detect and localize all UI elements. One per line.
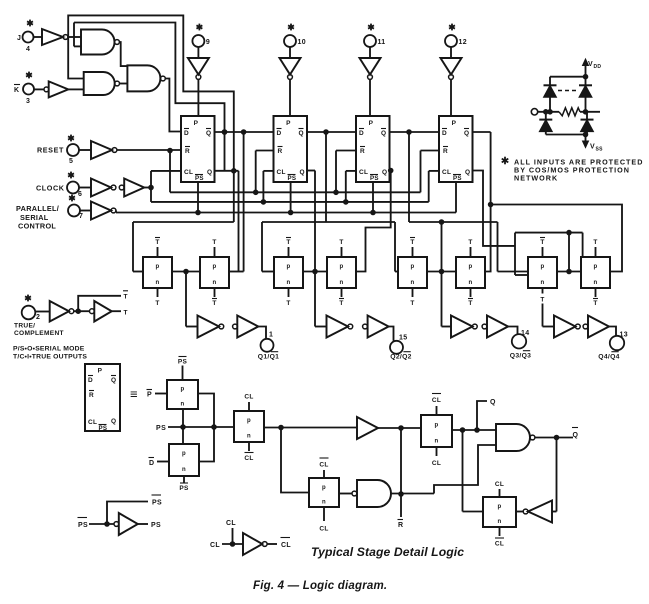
svg-text:T: T	[468, 239, 472, 246]
svg-text:n: n	[435, 439, 439, 445]
svg-text:p: p	[435, 423, 439, 429]
svg-text:n: n	[541, 280, 545, 286]
svg-text:CL: CL	[495, 541, 504, 548]
svg-text:12: 12	[459, 39, 467, 46]
svg-text:P: P	[369, 120, 374, 127]
svg-text:NETWORK: NETWORK	[514, 174, 558, 183]
svg-text:Q3/Q3: Q3/Q3	[510, 353, 532, 360]
svg-text:p: p	[181, 387, 185, 393]
svg-text:T: T	[593, 239, 597, 246]
svg-text:D: D	[442, 130, 447, 137]
svg-text:p: p	[541, 264, 545, 270]
svg-text:Q: Q	[111, 377, 116, 384]
svg-text:CL: CL	[495, 481, 504, 488]
svg-text:P: P	[286, 120, 291, 127]
svg-text:CL: CL	[432, 460, 441, 467]
svg-text:CL: CL	[244, 394, 253, 401]
svg-text:n: n	[181, 402, 185, 408]
svg-text:PS: PS	[99, 425, 108, 432]
svg-text:CLOCK: CLOCK	[36, 184, 65, 193]
svg-text:T: T	[212, 239, 216, 246]
svg-text:T: T	[155, 239, 159, 246]
svg-text:COMPLEMENT: COMPLEMENT	[14, 330, 64, 337]
svg-text:R: R	[360, 148, 365, 155]
svg-text:R: R	[278, 148, 283, 155]
svg-text:10: 10	[298, 39, 306, 46]
svg-text:D: D	[88, 377, 93, 384]
svg-text:Q: Q	[464, 130, 469, 137]
svg-text:Q: Q	[573, 432, 579, 439]
svg-text:n: n	[156, 280, 160, 286]
svg-text:PS: PS	[152, 500, 162, 507]
svg-text:T/C•I•TRUE OUTPUTS: T/C•I•TRUE OUTPUTS	[13, 354, 87, 361]
svg-text:5: 5	[69, 158, 73, 165]
svg-text:R: R	[185, 148, 190, 155]
svg-text:P: P	[194, 120, 199, 127]
svg-text:p: p	[287, 264, 291, 270]
svg-text:PS: PS	[195, 175, 204, 182]
svg-text:4: 4	[26, 46, 30, 53]
svg-text:Q: Q	[465, 169, 470, 176]
svg-text:p: p	[411, 264, 415, 270]
svg-text:CL: CL	[244, 455, 253, 462]
svg-text:T: T	[410, 239, 414, 246]
svg-text:Q1/Q1: Q1/Q1	[258, 354, 280, 361]
svg-text:CL: CL	[210, 542, 220, 549]
svg-text:CL: CL	[281, 542, 291, 549]
svg-text:CL: CL	[226, 520, 236, 527]
svg-text:T: T	[155, 300, 159, 307]
svg-text:CL: CL	[184, 169, 193, 176]
svg-text:2: 2	[36, 314, 40, 321]
svg-text:11: 11	[378, 39, 386, 46]
svg-text:T: T	[124, 310, 128, 317]
svg-text:Fig. 4 — Logic diagram.: Fig. 4 — Logic diagram.	[253, 580, 387, 592]
svg-text:7: 7	[79, 213, 83, 220]
svg-text:Q4/Q4: Q4/Q4	[598, 354, 620, 361]
svg-text:PS: PS	[151, 522, 161, 529]
svg-text:R: R	[443, 148, 448, 155]
svg-text:D: D	[184, 130, 189, 137]
svg-text:p: p	[498, 504, 502, 510]
svg-text:n: n	[411, 280, 415, 286]
svg-text:Typical Stage Detail Logic: Typical Stage Detail Logic	[311, 545, 464, 559]
svg-text:n: n	[340, 280, 344, 286]
svg-text:13: 13	[620, 332, 628, 339]
svg-text:R: R	[89, 392, 94, 399]
svg-text:n: n	[182, 467, 186, 473]
svg-text:CL: CL	[277, 169, 286, 176]
svg-text:T: T	[339, 300, 343, 307]
svg-text:Q: Q	[490, 399, 496, 406]
svg-text:CL: CL	[359, 169, 368, 176]
svg-text:P: P	[452, 120, 457, 127]
svg-text:TRUE/: TRUE/	[14, 323, 35, 330]
svg-text:T: T	[540, 239, 544, 246]
svg-text:1: 1	[269, 332, 273, 339]
svg-text:Q: Q	[111, 418, 116, 425]
svg-text:P: P	[147, 392, 152, 399]
svg-text:CL: CL	[432, 397, 441, 404]
svg-text:PARALLEL/: PARALLEL/	[16, 204, 59, 213]
svg-text:p: p	[340, 264, 344, 270]
svg-text:p: p	[594, 264, 598, 270]
svg-text:Q: Q	[382, 169, 387, 176]
svg-text:n: n	[213, 280, 217, 286]
svg-text:D: D	[359, 130, 364, 137]
svg-text:PS: PS	[288, 175, 297, 182]
svg-text:T: T	[468, 300, 472, 307]
svg-text:3: 3	[26, 98, 30, 105]
svg-text:Q: Q	[300, 169, 305, 176]
svg-text:PS: PS	[370, 175, 379, 182]
svg-text:PS: PS	[453, 175, 462, 182]
svg-text:6: 6	[78, 191, 82, 198]
svg-text:p: p	[469, 264, 473, 270]
svg-text:p: p	[247, 418, 251, 424]
svg-text:9: 9	[206, 39, 210, 46]
svg-text:PS: PS	[179, 485, 189, 492]
svg-text:P: P	[98, 368, 103, 375]
svg-text:n: n	[287, 280, 291, 286]
svg-text:Q: Q	[207, 169, 212, 176]
svg-text:PS: PS	[178, 359, 188, 366]
svg-text:DD: DD	[594, 64, 602, 70]
svg-text:D: D	[277, 130, 282, 137]
svg-text:PS: PS	[78, 522, 88, 529]
svg-text:D: D	[149, 460, 154, 467]
svg-text:V: V	[588, 61, 593, 68]
svg-text:Q: Q	[299, 130, 304, 137]
svg-text:n: n	[594, 280, 598, 286]
svg-text:CL: CL	[88, 419, 97, 426]
svg-text:J: J	[17, 35, 21, 42]
svg-text:p: p	[156, 264, 160, 270]
svg-text:CONTROL: CONTROL	[18, 222, 56, 231]
svg-text:14: 14	[521, 330, 529, 337]
svg-text:Q: Q	[381, 130, 386, 137]
svg-text:K: K	[14, 87, 19, 94]
svg-text:CL: CL	[442, 169, 451, 176]
svg-text:n: n	[498, 519, 502, 525]
svg-text:T: T	[286, 300, 290, 307]
svg-text:V: V	[590, 144, 595, 151]
svg-text:T: T	[286, 239, 290, 246]
svg-text:P/S•O•SERIAL MODE: P/S•O•SERIAL MODE	[13, 346, 85, 353]
svg-text:T: T	[593, 300, 597, 307]
svg-text:15: 15	[399, 335, 407, 342]
svg-text:T: T	[540, 297, 544, 304]
svg-text:T: T	[410, 300, 414, 307]
svg-text:R: R	[398, 522, 403, 529]
svg-text:T: T	[124, 294, 128, 301]
svg-text:T: T	[339, 239, 343, 246]
svg-text:n: n	[469, 280, 473, 286]
svg-text:p: p	[322, 485, 326, 491]
svg-text:PS: PS	[156, 425, 166, 432]
svg-text:Q: Q	[206, 130, 211, 137]
svg-text:T: T	[212, 300, 216, 307]
svg-text:RESET: RESET	[37, 146, 64, 155]
svg-text:SS: SS	[596, 147, 604, 153]
svg-text:≡: ≡	[130, 387, 138, 402]
svg-text:n: n	[322, 500, 326, 506]
svg-text:p: p	[213, 264, 217, 270]
svg-text:CL: CL	[319, 526, 328, 533]
svg-text:Q2/Q2: Q2/Q2	[390, 354, 412, 361]
svg-text:p: p	[182, 451, 186, 457]
svg-text:n: n	[247, 434, 251, 440]
svg-text:CL: CL	[319, 462, 328, 469]
